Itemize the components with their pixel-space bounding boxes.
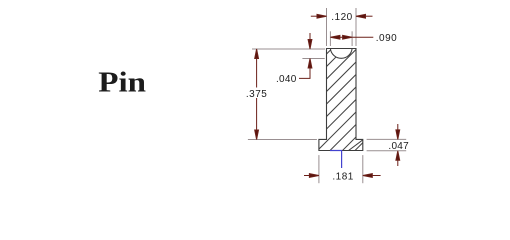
.181 dimension right arrow — [364, 175, 381, 177]
svg-text:.090: .090 — [376, 33, 397, 44]
hatch lines (45deg section hatching, clipped to material) — [308, 9, 372, 198]
.040 bottom arrow pointing up with leader — [308, 59, 312, 69]
.181 dimension left arrow — [304, 175, 318, 177]
.120 dimension right arrow — [357, 15, 373, 17]
.090 dimension line with inside arrows — [331, 36, 352, 38]
.375 dimension line — [256, 50, 258, 139]
.040 top arrow pointing down — [309, 33, 311, 40]
svg-text:.181: .181 — [332, 172, 353, 183]
extra short hatch in flange right ear — [349, 140, 363, 151]
svg-text:.040: .040 — [276, 74, 297, 85]
top surface extension line — [252, 48, 325, 50]
svg-text:.375: .375 — [246, 89, 267, 100]
dome bottom extension line — [302, 58, 324, 60]
.047 bottom extension line — [367, 150, 407, 152]
.047 bottom arrow pointing up — [397, 160, 399, 166]
.120 left extension line — [326, 8, 328, 46]
.090 left extension line — [329, 31, 331, 46]
blue highlighted sketch segment on flange bottom — [330, 151, 342, 169]
.181 left extension line — [318, 155, 320, 183]
.047 top arrow pointing down — [397, 124, 399, 130]
.120 dimension left arrow — [311, 15, 326, 17]
white masks behind dimension texts that cross lines — [246, 88, 269, 99]
dimension lines and arrows (dark red) — [255, 14, 400, 177]
svg-text:Pin: Pin — [98, 65, 146, 98]
svg-text:.120: .120 — [331, 12, 352, 23]
.120 right extension line — [355, 8, 357, 46]
.090 right extension line — [351, 31, 353, 46]
svg-text:.047: .047 — [388, 141, 409, 152]
pin outline — [319, 49, 363, 151]
.090 leader line — [352, 36, 373, 38]
extension lines (gray) — [248, 8, 406, 183]
.181 right extension line — [362, 155, 364, 183]
.047 top extension line — [367, 138, 407, 140]
dome recess arc — [330, 49, 352, 59]
flange top left extension line — [248, 139, 317, 141]
